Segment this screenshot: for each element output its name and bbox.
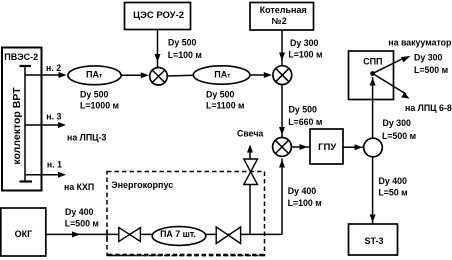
svg-text:на ЛПЦ-3: на ЛПЦ-3 [67,133,107,143]
svg-text:н. 3: н. 3 [46,112,61,122]
svg-text:ЦЭС РОУ-2: ЦЭС РОУ-2 [133,10,184,21]
svg-text:Свеча: Свеча [237,128,263,138]
svg-text:L=1100 м: L=1100 м [206,101,245,111]
svg-text:на вакууматор: на вакууматор [388,38,452,48]
svg-text:L=50 м: L=50 м [378,188,407,198]
svg-text:Dy 500: Dy 500 [168,38,196,48]
svg-text:ГПУ: ГПУ [318,142,336,153]
svg-text:Энергокорпус: Энергокорпус [111,180,173,190]
svg-text:L=100 м: L=100 м [168,50,202,60]
svg-text:СПП: СПП [363,57,382,67]
svg-text:№2: №2 [272,16,287,26]
svg-text:ПА 7 шт.: ПА 7 шт. [160,229,196,239]
svg-text:Dy 400: Dy 400 [379,176,407,186]
svg-text:Dy 500: Dy 500 [80,90,108,100]
svg-text:Dy 400: Dy 400 [288,186,316,196]
svg-text:L=100 м: L=100 м [288,50,322,60]
svg-text:ПВЭС-2: ПВЭС-2 [4,52,38,62]
svg-text:Dy 300: Dy 300 [414,52,442,62]
svg-text:Котельная: Котельная [260,5,307,15]
svg-text:н. 2: н. 2 [46,63,61,73]
svg-text:Dy 300: Dy 300 [383,118,411,128]
svg-text:Dy 500: Dy 500 [206,90,234,100]
svg-text:L=500 м: L=500 м [414,65,448,75]
svg-text:Dy 500: Dy 500 [289,105,317,115]
svg-text:L=660 м: L=660 м [288,117,322,127]
svg-text:Dy 400: Dy 400 [65,207,93,217]
svg-text:L=500 м: L=500 м [65,219,99,229]
svg-text:ОКГ: ОКГ [15,229,33,239]
svg-text:на КХП: на КХП [64,182,94,192]
svg-text:L=1000 м: L=1000 м [80,101,119,111]
svg-text:L=500 м: L=500 м [382,131,416,141]
svg-text:на ЛПЦ 6-8: на ЛПЦ 6-8 [405,103,452,113]
svg-text:коллектор ВРТ: коллектор ВРТ [11,87,23,165]
svg-text:н. 1: н. 1 [47,160,62,170]
svg-text:Dy 300: Dy 300 [290,38,318,48]
svg-text:L=100 м: L=100 м [288,198,322,208]
svg-text:ST-3: ST-3 [364,236,383,246]
